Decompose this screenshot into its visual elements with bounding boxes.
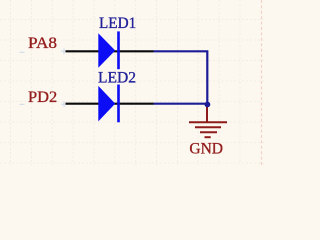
diode LED2 symbol bbox=[98, 85, 119, 123]
node marker cross at PD2 label bbox=[20, 103, 25, 105]
ground bbox=[189, 105, 227, 138]
svg-text:LED2: LED2 bbox=[98, 70, 136, 87]
svg-text:LED1: LED1 bbox=[99, 15, 136, 32]
node marker cross at wire end row1 bbox=[61, 48, 67, 54]
pin of LED2 (black) bbox=[66, 103, 154, 105]
svg-text:PA8: PA8 bbox=[28, 35, 57, 52]
wire from LED1 to node A bbox=[154, 51, 208, 104]
junction node A bbox=[205, 102, 211, 108]
node marker cross at wire end row2 bbox=[61, 101, 67, 107]
sheet border line bbox=[261, 0, 263, 165]
svg-text:GND: GND bbox=[189, 140, 223, 157]
wire from LED2 to node A bbox=[154, 103, 208, 105]
node marker cross at PA8 label bbox=[20, 51, 25, 53]
pin of LED1 (black) bbox=[66, 50, 154, 52]
diode LED1 symbol bbox=[98, 31, 119, 69]
svg-text:PD2: PD2 bbox=[28, 89, 57, 106]
